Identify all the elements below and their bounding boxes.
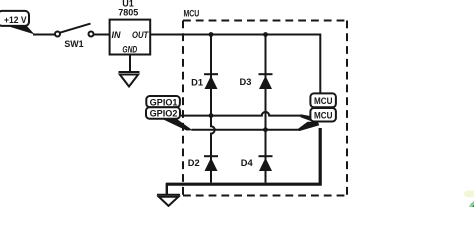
svg-text:D2: D2 xyxy=(188,158,200,168)
wire GPIO1 net (upper) with hop over D3 branch xyxy=(181,112,303,116)
ground at bottom left xyxy=(157,195,180,206)
junction node GPIO1 net / D1 branch xyxy=(209,113,214,118)
svg-text:OUT: OUT xyxy=(132,30,149,40)
regulator U1 7805 xyxy=(110,0,151,55)
svg-text:D1: D1 xyxy=(191,77,203,87)
diode D4 xyxy=(241,156,273,171)
diode D2 xyxy=(188,156,218,171)
logo watermark bottom-right corner xyxy=(464,190,474,216)
wire vertical D1/D2 branch with hop over GPIO2 net xyxy=(211,35,215,183)
wire SW1 to U1 IN xyxy=(94,34,110,36)
svg-text:+12 V: +12 V xyxy=(4,15,27,26)
wire GPIO2 net (lower) xyxy=(192,129,301,131)
switch SW1 xyxy=(55,24,94,49)
tag MCU upper xyxy=(310,93,336,107)
diode D3 xyxy=(240,74,273,89)
MCU dashed boundary box xyxy=(183,8,347,195)
wire vertical D3/D4 branch xyxy=(265,35,267,183)
junction node rail/D3 xyxy=(263,32,268,37)
tag MCU lower xyxy=(298,108,336,131)
svg-text:GPIO2: GPIO2 xyxy=(150,109,178,119)
svg-text:SW1: SW1 xyxy=(64,39,83,49)
thick ground bus wire xyxy=(166,128,322,195)
svg-text:7805: 7805 xyxy=(118,8,138,18)
tag GPIO1 xyxy=(146,96,186,117)
svg-text:IN: IN xyxy=(112,30,122,40)
wire U1 OUT to MCU (+5V rail) xyxy=(150,35,320,94)
svg-text:D4: D4 xyxy=(241,158,254,168)
wire U1 GND down xyxy=(129,55,131,72)
svg-text:GND: GND xyxy=(122,45,137,55)
svg-text:MCU: MCU xyxy=(184,8,200,18)
tag GPIO2 xyxy=(146,107,193,130)
power flag +12V xyxy=(0,11,35,35)
svg-text:D3: D3 xyxy=(240,77,252,87)
ground below U1 xyxy=(119,72,140,87)
junction node GPIO2 net / D3 branch xyxy=(263,127,268,132)
wire +12V to SW1 xyxy=(33,34,55,36)
svg-text:MCU: MCU xyxy=(314,96,332,106)
svg-text:GPIO1: GPIO1 xyxy=(150,97,178,107)
diode D1 xyxy=(191,74,218,89)
svg-text:MCU: MCU xyxy=(314,110,332,120)
junction node rail/D1 xyxy=(209,32,214,37)
